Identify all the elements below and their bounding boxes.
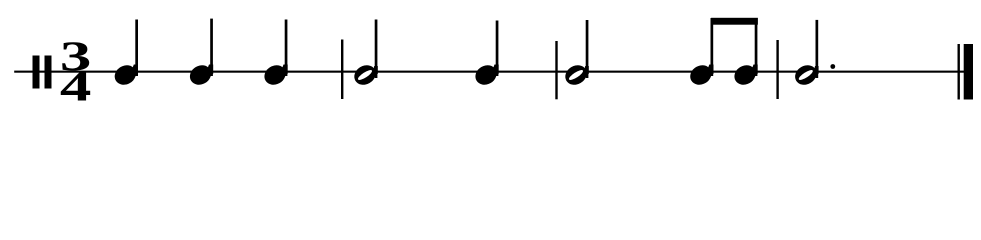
quarter note 2 head <box>186 61 214 88</box>
barline 1 <box>341 40 343 100</box>
quarter note 3 head <box>261 61 289 88</box>
eighth note 1 head <box>687 61 715 88</box>
quarter note 1 head <box>111 61 139 88</box>
half note 1 stem <box>375 20 378 79</box>
eighth note 1 stem <box>711 18 714 76</box>
beam connecting eighth notes <box>711 18 758 25</box>
quarter note 1 stem <box>135 20 138 77</box>
staff line <box>14 71 973 73</box>
eighth note 2 stem <box>755 18 758 76</box>
augmentation dot <box>830 64 835 69</box>
barline 3 <box>776 40 778 99</box>
eighth note 2 head <box>731 61 759 88</box>
final thick barline <box>964 44 973 100</box>
final thin barline <box>958 44 960 100</box>
barline 2 <box>555 41 557 99</box>
dotted half note stem <box>816 20 819 78</box>
svg-text:4: 4 <box>60 63 91 110</box>
quarter note 4 stem <box>496 21 499 77</box>
half note 2 stem <box>586 20 589 78</box>
begin heavy double barline <box>33 56 40 89</box>
dotted half note head <box>791 61 820 88</box>
half note 2 head <box>562 61 591 88</box>
quarter note 3 stem <box>285 20 288 77</box>
quarter note 4 head <box>472 61 500 88</box>
half note 1 head <box>351 61 380 88</box>
quarter note 2 stem <box>210 19 213 76</box>
